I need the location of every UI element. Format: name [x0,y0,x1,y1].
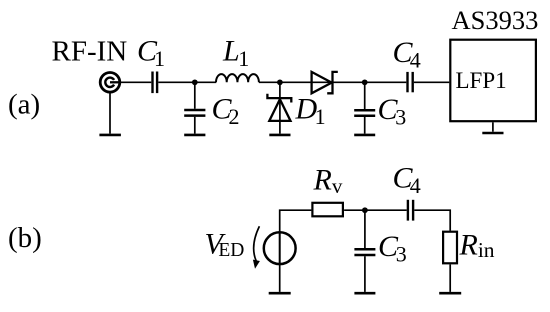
wire C3b to ground [364,256,366,292]
ground (V_ED) [269,292,291,295]
zener diode D1 (shunt) [267,82,291,133]
ground (C3 b) [354,292,375,295]
wire connector to ground [109,92,111,134]
wire rail corner to source [280,210,312,232]
capacitor C3 [354,110,375,116]
series zener diode [312,72,338,93]
inductor L1 [216,74,259,82]
node B [277,79,283,85]
svg-text:C2: C2 [212,92,240,129]
wire node B to series diode [280,81,333,83]
svg-text:C4: C4 [393,36,421,73]
wire C2 to ground [194,117,196,134]
capacitor C2 [184,110,205,116]
wire C3 to ground [364,117,366,134]
node A [192,79,198,85]
wire source to ground [279,264,281,292]
svg-text:VED: VED [205,228,245,261]
svg-text:C1: C1 [137,35,165,72]
arrow (voltage direction) [253,226,260,269]
wire node A to C2 [194,82,196,109]
svg-text:Rin: Rin [459,229,495,263]
capacitor C4 (b) [408,200,413,221]
wire series diode to node C [333,81,367,83]
wire node D to C4b [365,209,407,211]
ground (D1) [269,134,290,137]
svg-text:LFP1: LFP1 [456,68,507,93]
wire IC to ground [492,122,494,131]
capacitor C1 [153,72,158,94]
wire node C to C3 [364,82,366,109]
svg-text:D1: D1 [295,93,326,130]
ground (C2) [184,134,205,137]
svg-text:(b): (b) [8,222,42,254]
wire node A to L1 [195,81,216,83]
capacitor C3 (b) [354,249,375,255]
wire connector to C1 [120,81,152,83]
svg-text:RF-IN: RF-IN [52,35,128,67]
wire node C to C4 [365,81,407,83]
wire L1 to node B [259,81,281,83]
ground (RF-IN) [99,134,121,137]
resistor R_in [443,232,457,264]
svg-text:L1: L1 [222,35,249,72]
ground (U1) [482,132,503,135]
wire R_in to ground [449,265,451,292]
svg-text:C3: C3 [378,93,407,130]
wire C4b to R_in [414,210,450,231]
connector RF-IN [100,73,120,93]
wire C1 to node A [158,81,196,83]
wire C4 to IC [414,81,449,83]
node C [362,79,368,85]
capacitor C4 [408,72,413,92]
svg-text:(a): (a) [8,89,40,121]
svg-text:Rv: Rv [313,163,343,197]
ground (R_in) [439,292,461,295]
resistor Rv [312,203,343,217]
wire node D to C3b [364,210,366,248]
source V_ED [264,232,296,264]
svg-text:C4: C4 [393,161,421,198]
IC U1 AS3933 [450,40,536,122]
svg-text:AS3933: AS3933 [452,5,539,35]
node D [362,207,368,213]
ground (C3) [354,134,375,137]
wire Rv to node D [344,209,366,211]
svg-text:C3: C3 [378,230,407,267]
